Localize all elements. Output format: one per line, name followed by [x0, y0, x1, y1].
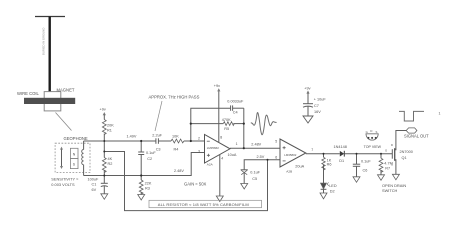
svg-text:1: 1: [236, 142, 238, 146]
svg-text:LM358#2: LM358#2: [207, 146, 219, 150]
svg-text:WIRE COIL: WIRE COIL: [17, 91, 40, 96]
svg-text:10uF: 10uF: [317, 98, 326, 102]
svg-text:0.003 VOLTS: 0.003 VOLTS: [51, 182, 75, 187]
svg-text:6V: 6V: [92, 188, 97, 192]
svg-text:R1: R1: [107, 128, 112, 132]
svg-text:3: 3: [198, 149, 200, 153]
svg-text:MAGNET: MAGNET: [57, 87, 75, 92]
svg-text:20K: 20K: [107, 124, 114, 128]
svg-text:R6: R6: [327, 163, 332, 167]
svg-text:4K: 4K: [108, 157, 113, 161]
svg-text:16V: 16V: [314, 110, 321, 114]
svg-text:0.1uF: 0.1uF: [250, 170, 260, 174]
svg-text:10uA: 10uA: [228, 153, 237, 157]
svg-text:+9v: +9v: [100, 108, 106, 112]
svg-text:C1: C1: [92, 183, 97, 187]
svg-text:22K: 22K: [145, 182, 152, 186]
svg-text:2.2uF: 2.2uF: [152, 134, 162, 138]
svg-text:C3: C3: [156, 147, 161, 151]
svg-text:+9v: +9v: [304, 86, 310, 90]
svg-text:D1: D1: [339, 159, 344, 163]
svg-text:8: 8: [220, 135, 222, 139]
svg-text:0.1uF: 0.1uF: [146, 151, 156, 155]
svg-text:R3: R3: [145, 186, 150, 190]
svg-text:SIGNAL OUT: SIGNAL OUT: [404, 133, 429, 138]
svg-text:2.48V: 2.48V: [174, 169, 184, 173]
svg-text:0.1uF: 0.1uF: [361, 159, 371, 163]
svg-text:R2: R2: [108, 162, 113, 166]
svg-text:R4: R4: [174, 147, 179, 151]
svg-text:LM358#2: LM358#2: [284, 153, 296, 157]
svg-text:C5: C5: [252, 177, 257, 181]
svg-text:C6: C6: [363, 169, 368, 173]
svg-text:SENSITIVITY ≈: SENSITIVITY ≈: [51, 176, 79, 181]
svg-text:7: 7: [311, 148, 313, 152]
svg-text:TOP VIEW: TOP VIEW: [364, 145, 382, 149]
svg-text:10K: 10K: [172, 134, 179, 138]
svg-text:0.0033uF: 0.0033uF: [227, 99, 244, 103]
svg-text:APPROX. 7Hz HIGH PASS: APPROX. 7Hz HIGH PASS: [149, 95, 200, 100]
svg-text:G: G: [366, 130, 368, 134]
svg-text:BURIED IN GROUND: BURIED IN GROUND: [42, 28, 46, 55]
svg-text:GAIN ≈ 50X: GAIN ≈ 50X: [184, 181, 207, 186]
svg-text:ALL RESISTOR ≈ 1/8 WATT 5% CAR: ALL RESISTOR ≈ 1/8 WATT 5% CARBON/FILM: [158, 202, 249, 207]
svg-text:G: G: [385, 148, 387, 152]
svg-text:+9v: +9v: [214, 84, 220, 88]
svg-text:1N4148: 1N4148: [334, 145, 347, 149]
svg-text:2.5V: 2.5V: [257, 155, 265, 159]
svg-text:470K: 470K: [222, 118, 231, 122]
svg-text:D2: D2: [330, 189, 335, 193]
svg-text:2: 2: [198, 136, 200, 140]
svg-text:C2: C2: [147, 157, 152, 161]
svg-text:SWITCH: SWITCH: [382, 188, 398, 193]
svg-text:R5: R5: [224, 127, 229, 131]
svg-text:4: 4: [221, 156, 223, 160]
svg-text:S: S: [376, 130, 378, 134]
svg-text:D: D: [391, 143, 393, 147]
svg-text:C4: C4: [233, 111, 238, 115]
svg-text:2.48V: 2.48V: [251, 142, 261, 146]
svg-text:A2B: A2B: [286, 170, 292, 174]
svg-text:GEOPHONE: GEOPHONE: [64, 136, 88, 141]
svg-text:A2A: A2A: [207, 163, 214, 167]
svg-text:R7: R7: [385, 166, 390, 170]
svg-text:2N7000: 2N7000: [400, 150, 413, 154]
svg-text:D: D: [370, 129, 372, 133]
svg-text:6: 6: [275, 155, 277, 159]
svg-text:LED: LED: [329, 184, 337, 188]
svg-text:20uA: 20uA: [295, 164, 304, 168]
svg-text:Q1: Q1: [402, 156, 407, 160]
svg-text:1.49V: 1.49V: [127, 134, 137, 138]
svg-text:S: S: [391, 162, 393, 166]
svg-text:5: 5: [275, 139, 277, 143]
svg-text:C7: C7: [314, 104, 319, 108]
svg-text:1: 1: [439, 112, 441, 116]
svg-text:100uF: 100uF: [88, 177, 99, 181]
